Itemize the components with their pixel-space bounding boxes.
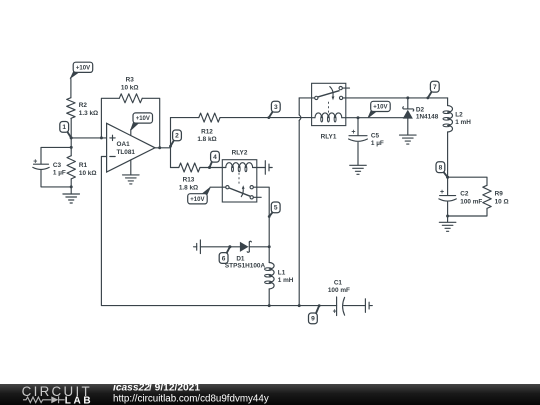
svg-text:+10V: +10V xyxy=(136,116,150,122)
svg-text:1 mH: 1 mH xyxy=(278,277,294,284)
svg-text:R9: R9 xyxy=(495,191,504,198)
svg-text:8: 8 xyxy=(439,165,443,172)
svg-text:100 mF: 100 mF xyxy=(328,287,350,294)
svg-text:3: 3 xyxy=(274,104,278,111)
svg-text:9: 9 xyxy=(311,316,315,323)
svg-text:C1: C1 xyxy=(334,279,343,286)
svg-text:7: 7 xyxy=(433,84,437,91)
svg-text:10 kΩ: 10 kΩ xyxy=(79,170,97,177)
svg-text:R12: R12 xyxy=(201,128,213,135)
svg-text:LAB: LAB xyxy=(65,395,93,405)
svg-text:/ 9/12/2021: / 9/12/2021 xyxy=(149,382,200,393)
svg-text:+: + xyxy=(333,308,337,315)
svg-text:+10V: +10V xyxy=(373,105,387,111)
svg-text:RLY2: RLY2 xyxy=(232,150,248,157)
svg-text:1: 1 xyxy=(62,124,66,131)
svg-text:1.8 kΩ: 1.8 kΩ xyxy=(197,136,216,143)
svg-text:TL081: TL081 xyxy=(117,149,136,156)
svg-text:1 µF: 1 µF xyxy=(371,140,384,147)
svg-text:L2: L2 xyxy=(455,112,463,119)
svg-text:+10V: +10V xyxy=(76,66,90,72)
svg-text:10 kΩ: 10 kΩ xyxy=(121,84,139,91)
svg-text:+: + xyxy=(440,189,444,196)
svg-text:1N4148: 1N4148 xyxy=(416,114,439,121)
svg-text:R2: R2 xyxy=(79,102,88,109)
svg-text:10 Ω: 10 Ω xyxy=(495,198,509,205)
svg-text:STPS1H100A: STPS1H100A xyxy=(225,263,266,270)
svg-text:http://circuitlab.com/cd8u9fdv: http://circuitlab.com/cd8u9fdvmy44y xyxy=(113,393,269,404)
svg-text:R3: R3 xyxy=(126,77,135,84)
svg-text:1.8 kΩ: 1.8 kΩ xyxy=(179,184,198,191)
svg-text:R13: R13 xyxy=(183,177,195,184)
svg-text:OA1: OA1 xyxy=(117,141,131,148)
svg-text:+: + xyxy=(351,129,355,136)
svg-text:R1: R1 xyxy=(79,162,88,169)
svg-text:1 mH: 1 mH xyxy=(455,119,471,126)
svg-text:+: + xyxy=(33,159,37,166)
svg-text:icass22: icass22 xyxy=(113,382,150,393)
svg-text:4: 4 xyxy=(213,154,217,161)
svg-text:+10V: +10V xyxy=(190,197,204,203)
svg-text:C3: C3 xyxy=(53,162,62,169)
svg-text:6: 6 xyxy=(222,255,226,262)
svg-text:1.3 kΩ: 1.3 kΩ xyxy=(79,110,98,117)
svg-text:2: 2 xyxy=(175,133,179,140)
svg-text:100 mF: 100 mF xyxy=(460,198,482,205)
svg-text:1 µF: 1 µF xyxy=(53,169,66,176)
svg-text:C2: C2 xyxy=(460,191,469,198)
svg-text:5: 5 xyxy=(274,205,278,212)
svg-text:C5: C5 xyxy=(371,132,380,139)
svg-text:L1: L1 xyxy=(278,270,286,277)
svg-text:D1: D1 xyxy=(236,255,245,262)
svg-text:RLY1: RLY1 xyxy=(321,134,337,141)
